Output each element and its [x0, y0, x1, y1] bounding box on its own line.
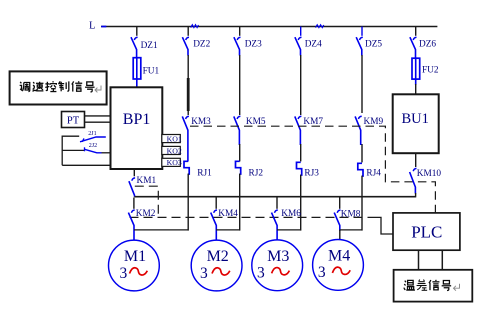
svg-text:DZ3: DZ3 — [245, 39, 262, 49]
svg-text:3: 3 — [257, 265, 265, 282]
svg-text:KO2: KO2 — [167, 146, 182, 155]
motor M4 — [313, 240, 364, 291]
svg-text:DZ6: DZ6 — [419, 39, 436, 49]
svg-text:DZ4: DZ4 — [305, 39, 322, 49]
contact 2J1 — [62, 131, 106, 142]
dashed link KM2-KM4-KM6-KM8 to PLC — [130, 217, 394, 234]
wire RJ2 down — [239, 174, 241, 231]
wire feedback rail left — [62, 136, 110, 166]
svg-text:DZ5: DZ5 — [365, 39, 382, 49]
svg-text:L: L — [89, 20, 95, 31]
breaker DZ3 — [234, 27, 262, 56]
wire jog RJ4 to M4 — [340, 229, 362, 231]
zigzag break mark 1 on rail — [191, 25, 199, 28]
fuse FU1 — [133, 58, 159, 88]
svg-text:KM10: KM10 — [417, 169, 442, 179]
svg-text:3: 3 — [318, 264, 326, 281]
wire PLC to signal box right — [441, 250, 443, 270]
svg-text:BP1: BP1 — [123, 111, 151, 128]
contact KM9 — [355, 116, 383, 145]
motor M3 — [252, 240, 303, 291]
wire jog RJ1 to M1 — [134, 229, 188, 231]
svg-text:3: 3 — [200, 265, 208, 282]
inverter BP1 — [111, 87, 163, 169]
svg-text:DZ2: DZ2 — [193, 39, 210, 49]
transducer PT — [62, 112, 85, 128]
controller PLC — [393, 213, 460, 250]
thermal relay RJ3 — [297, 162, 320, 178]
thermal relay RJ4 — [358, 163, 381, 178]
wire DZ3 to KM5 — [239, 55, 241, 115]
svg-text:FU1: FU1 — [143, 66, 160, 76]
contact KM7 — [295, 116, 324, 145]
svg-text:FU2: FU2 — [422, 65, 439, 75]
svg-text:RJ1: RJ1 — [197, 169, 212, 179]
svg-text:PLC: PLC — [411, 222, 442, 241]
svg-text:KM4: KM4 — [218, 209, 238, 219]
wire RJ1 down — [187, 174, 189, 231]
wire DZ2 to KM3 — [187, 55, 189, 115]
svg-text:RJ3: RJ3 — [304, 169, 319, 179]
motor M1 — [108, 240, 159, 291]
wire inverter bus — [134, 196, 415, 198]
breaker DZ5 — [356, 27, 382, 56]
breaker DZ2 — [182, 27, 210, 56]
fuse FU2 — [412, 58, 439, 85]
breaker DZ4 — [295, 27, 322, 56]
label box temperature signal — [394, 270, 473, 302]
svg-text:KM1: KM1 — [137, 176, 157, 186]
wire RJ4 down — [361, 176, 363, 231]
svg-text:KM2: KM2 — [136, 209, 156, 219]
contact KM8 — [334, 198, 361, 241]
wire PLC to signal box left — [418, 250, 420, 270]
svg-text:KO1: KO1 — [167, 134, 182, 143]
thermal relay RJ2 — [236, 161, 264, 178]
svg-text:M2: M2 — [207, 248, 229, 265]
svg-text:BU1: BU1 — [401, 111, 428, 127]
terminal KO3 — [162, 158, 182, 167]
contact KM6 — [272, 198, 302, 241]
dashed link KM3-KM5-KM7-KM9 to KM10 — [190, 126, 435, 212]
wire DZ5 to KM9 — [361, 55, 363, 113]
svg-text:M1: M1 — [124, 248, 146, 265]
motor M2 — [191, 240, 242, 291]
wire KM9 to RJ4 — [361, 144, 363, 162]
svg-text:M3: M3 — [267, 248, 289, 265]
brake unit BU1 — [393, 94, 439, 153]
contact KM10 — [410, 153, 442, 197]
contact KM5 — [234, 116, 266, 145]
svg-text:PT: PT — [67, 116, 80, 127]
wire RJ3 down — [300, 175, 302, 231]
svg-text:2J2: 2J2 — [89, 143, 97, 149]
wire jog RJ3 to M3 — [277, 229, 301, 231]
wire KM7 to RJ3 — [300, 144, 302, 161]
breaker DZ6 — [410, 27, 436, 59]
wire DZ4 to KM7 — [300, 55, 302, 115]
terminal KO1 — [162, 134, 182, 143]
svg-text:RJ4: RJ4 — [366, 169, 381, 179]
thermal relay RJ1 — [184, 161, 212, 178]
wire jog RJ2 to M2 — [216, 229, 240, 231]
breaker DZ1 — [131, 27, 158, 59]
svg-text:DZ1: DZ1 — [141, 41, 158, 51]
svg-text:3: 3 — [120, 265, 128, 282]
label box speed control signal — [10, 71, 107, 104]
svg-text:2J1: 2J1 — [88, 131, 96, 137]
wire FU2 to BU1 — [415, 84, 417, 94]
wire KM5 to RJ2 — [239, 144, 241, 161]
zigzag break mark 2 on rail — [316, 25, 324, 28]
wire L top rail — [101, 26, 437, 28]
svg-text:KM6: KM6 — [281, 209, 301, 219]
svg-text:KM8: KM8 — [341, 209, 361, 219]
contact KM3 — [182, 116, 211, 161]
wire PT to BP1 lower — [85, 121, 111, 123]
contact KM1 — [129, 169, 157, 197]
wire PT to BP1 upper — [85, 115, 111, 117]
contact KM4 — [211, 198, 239, 241]
svg-text:KO3: KO3 — [167, 158, 182, 167]
svg-text:RJ2: RJ2 — [249, 169, 264, 179]
dashed link KM1 — [135, 186, 159, 217]
contact KM2 — [128, 198, 155, 241]
node L label — [89, 20, 95, 31]
contact 2J2 — [62, 143, 110, 153]
svg-text:M4: M4 — [328, 248, 350, 265]
terminal KO2 — [162, 146, 182, 155]
